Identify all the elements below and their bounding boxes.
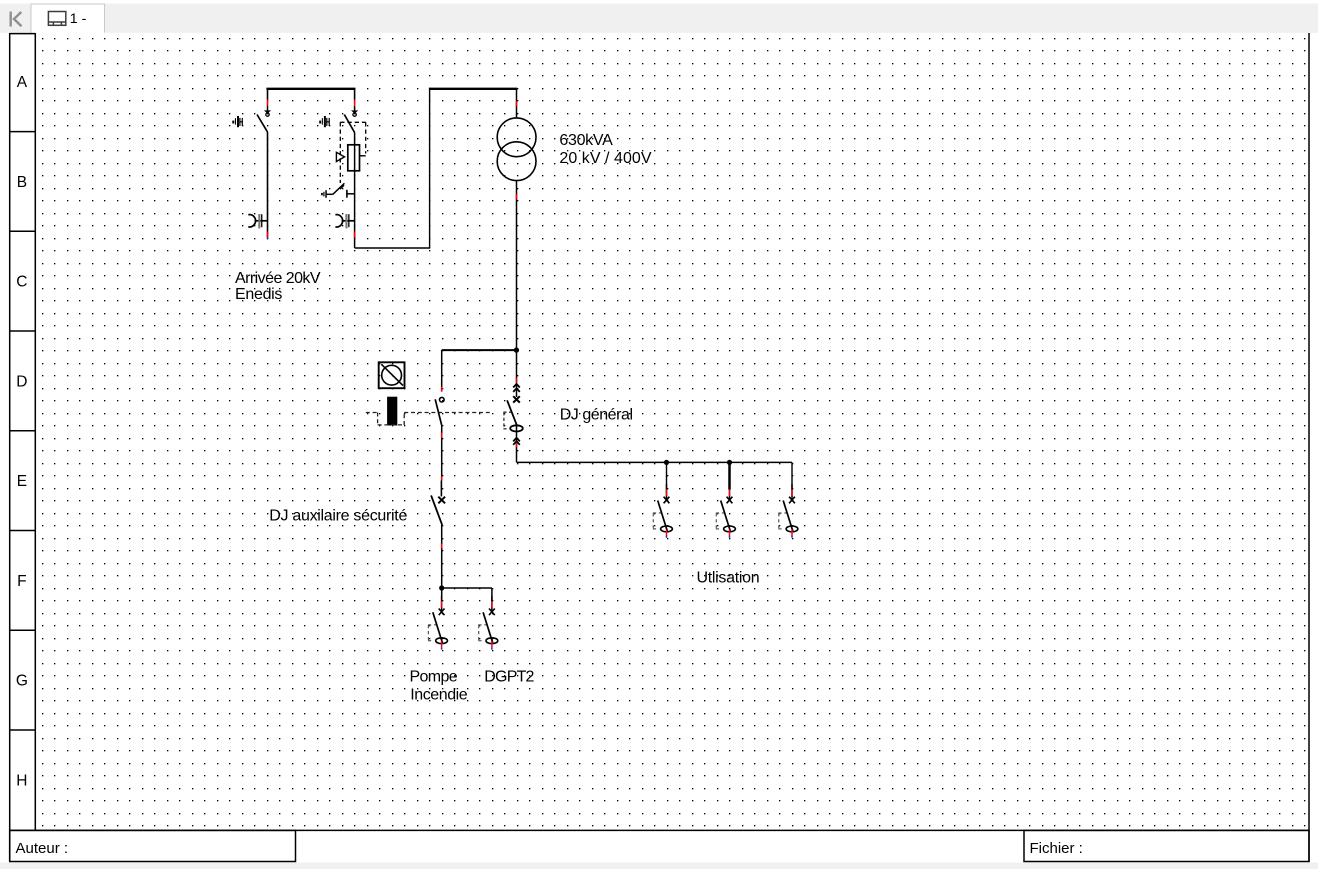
svg-text:Auteur :: Auteur :	[16, 840, 69, 857]
svg-text:A: A	[17, 74, 28, 91]
svg-text:Enedis: Enedis	[235, 286, 282, 303]
svg-text:E: E	[17, 473, 27, 490]
svg-text:630kVA: 630kVA	[559, 132, 613, 149]
svg-text:B: B	[17, 174, 27, 191]
svg-text:DGPT2: DGPT2	[484, 669, 534, 686]
svg-text:DJ général: DJ général	[560, 406, 633, 423]
svg-text:DJ auxilaire sécurité: DJ auxilaire sécurité	[269, 508, 407, 525]
svg-text:C: C	[16, 274, 27, 291]
svg-text:Fichier :: Fichier :	[1030, 840, 1083, 857]
svg-text:Incendie: Incendie	[410, 687, 467, 704]
svg-text:H: H	[16, 772, 27, 789]
svg-text:Arrivée 20kV: Arrivée 20kV	[235, 270, 321, 287]
svg-text:20 kV / 400V: 20 kV / 400V	[559, 150, 651, 167]
svg-text:Pompe: Pompe	[410, 669, 458, 686]
svg-text:1 -: 1 -	[70, 11, 87, 27]
svg-text:G: G	[16, 673, 28, 690]
svg-text:D: D	[16, 373, 27, 390]
svg-text:F: F	[17, 573, 26, 590]
svg-text:Utlisation: Utlisation	[697, 570, 760, 587]
